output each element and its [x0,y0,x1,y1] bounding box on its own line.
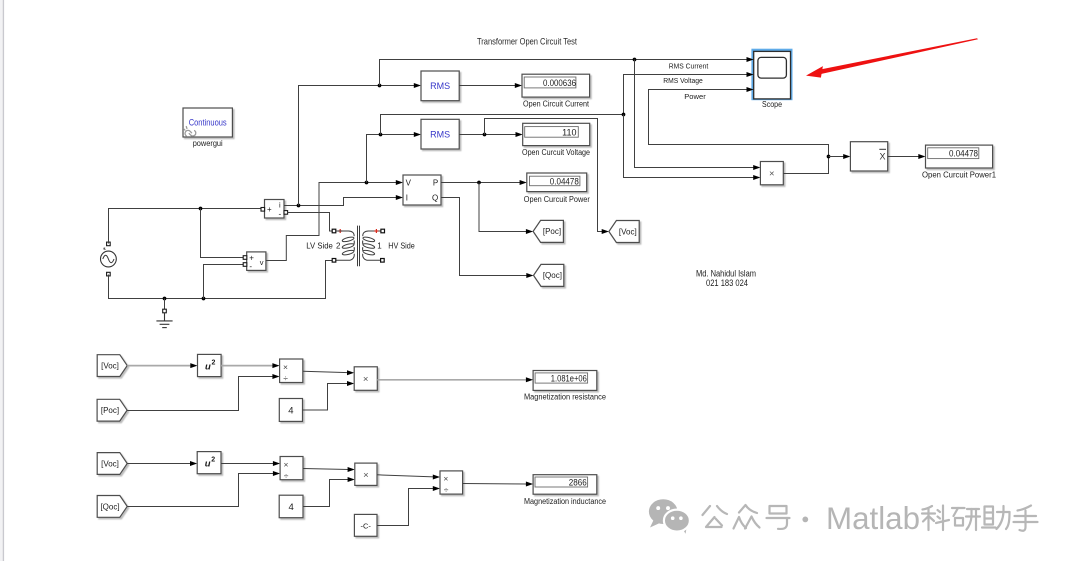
wire P output to display3 [441,182,521,184]
arrow into display6 [526,482,533,487]
svg-text:×: × [769,169,775,180]
wire RMS voltage down to product input 2 [624,115,755,178]
wire Poc to divide row1 input 2 [127,377,273,411]
arrow into u2 row1 [190,363,197,368]
svg-text:Magnetization resistance: Magnetization resistance [524,393,607,402]
arrow into display3 [520,180,527,185]
transformer LV bottom port [332,259,336,263]
wire Qoc to divide row2 input 2 [127,474,274,507]
svg-text:÷: ÷ [284,470,289,480]
watermark char hao [767,506,790,529]
wire RMS1 to display1 [459,85,516,87]
svg-text:2: 2 [211,457,215,464]
svg-text:Open Curcuit Power: Open Curcuit Power [524,195,590,204]
svg-text:÷: ÷ [444,485,449,495]
node V2 junction [379,133,383,137]
watermark char zhu [982,506,1010,529]
wire node G2 to voltmeter minus [204,265,244,299]
node V junction [365,181,369,185]
wire scope voltage column [624,75,748,115]
node I2 junction [378,84,382,88]
from tag Qoc row2 [97,496,127,518]
wire divide2 to display6 [463,483,527,486]
math function u2 row2 [197,452,221,474]
wire node V2 up and right to scope column [381,115,624,135]
display5 Magnetization resistance [533,371,597,391]
node G2 junction [202,297,206,301]
power measurement block VIPQ [403,175,441,205]
canvas left edge line [0,0,3,561]
node S1 junction [633,58,637,62]
transformer HV bottom port [381,259,385,263]
wire Voc tap from RMS2 node to Voc goto [485,119,603,232]
wire RMS current down to product input 1 [635,60,755,168]
svg-text:×: × [443,474,448,484]
transformer LV winding [336,231,355,260]
display1 Open Circuit Current [522,74,590,97]
goto tag Poc [533,220,563,242]
svg-text:LV Side: LV Side [306,241,333,250]
arrow into divide row1 input 2 [272,374,279,379]
arrow into divide row2 input 1 [273,461,280,466]
scope selection highlight [753,50,791,98]
arrow into divide row1 input 1 [272,363,279,368]
watermark char shou [1014,506,1038,531]
RMS2 block [421,119,459,149]
product block x [760,162,783,185]
svg-text:[Qoc]: [Qoc] [100,502,119,511]
current block left port [261,208,265,212]
svg-text:0.04478: 0.04478 [550,176,579,186]
arrow into power block V [396,180,403,185]
svg-text:2866: 2866 [569,478,587,488]
svg-text:HV Side: HV Side [388,241,415,250]
svg-text:X: X [880,152,886,162]
arrow into display5 [526,377,533,382]
svg-text:Open Curcuit Power1: Open Curcuit Power1 [922,170,997,179]
arrow into divide row2 input 2 [273,471,280,476]
RMS1 block [421,71,459,101]
from tag Voc row1 [97,355,127,377]
wire product row2 to divide2 row2 [377,475,434,477]
arrow into u2 row2 [190,461,197,466]
svg-text:[Poc]: [Poc] [101,406,119,415]
svg-text:[Qoc]: [Qoc] [543,271,562,280]
wire node A to voltmeter plus [201,209,244,258]
transformer HV polarity plus [374,229,378,233]
svg-text:Transformer Open Circuit Test: Transformer Open Circuit Test [477,37,577,48]
from tag Poc row1 [97,399,127,421]
arrow into power block I [396,195,403,200]
node RMS2 out junction [483,133,487,137]
watermark char gong [703,506,728,527]
voltage measurement block v [247,252,266,271]
arrow into product row1 input 1 [347,370,354,375]
svg-text:v: v [260,258,264,267]
red annotation arrow [806,38,978,77]
wire node I2 up to scope current line [380,60,748,86]
svg-text:RMS: RMS [430,81,450,91]
arrow into product input 2 [753,175,760,180]
svg-text:×: × [363,374,369,385]
svg-text:Q: Q [432,194,438,203]
svg-text:1.081e+06: 1.081e+06 [551,374,587,384]
arrow into product row2 input 1 [348,467,355,472]
wire v output to power block V input [266,183,397,261]
svg-text:0.000636: 0.000636 [543,78,576,88]
node A junction [199,207,203,211]
arrow into Voc goto [602,229,609,234]
wire node V up to RMS2 input [367,135,415,183]
node G1 junction [163,297,167,301]
AC source top port [107,242,111,246]
arrow into display2 [516,132,523,137]
wire P branch to Poc goto [479,183,527,232]
wire power feedback to scope port 3 [649,90,829,157]
svg-text:Magnetization inductance: Magnetization inductance [524,497,606,506]
wire Voc to u2 row1 [127,365,192,367]
svg-text:[Voc]: [Voc] [101,362,119,371]
ground symbol [156,313,172,328]
svg-text:powergui: powergui [193,139,223,148]
goto tag Qoc [534,264,564,286]
svg-text:[Voc]: [Voc] [619,227,637,236]
wire divide row2 to product row2 [303,469,349,470]
arrow into product row1 input 2 [347,381,354,386]
svg-text:021 183 024: 021 183 024 [706,278,748,288]
svg-text:u: u [205,362,211,373]
svg-text:Matlab: Matlab [826,500,920,536]
wire constant4 row1 to product row1 input 2 [303,384,349,411]
wire Voc row2 to u2 row2 [127,463,192,465]
svg-text:×: × [284,459,289,469]
wire RMS2 to display2 [459,134,516,136]
divide block row1 [280,359,303,383]
constant 4 row2 [279,495,303,518]
node M junction [827,155,831,159]
display6 Magnetization inductance [533,475,597,495]
svg-text:2: 2 [336,241,341,250]
svg-text:P: P [433,178,438,187]
watermark char ke [922,506,949,531]
arrow into divide2 input 1 [433,475,440,480]
svg-text:4: 4 [288,405,293,416]
arrow into product row2 input 2 [348,477,355,482]
arrow into scope port 2 [747,72,754,77]
AC source bottom port [107,272,111,276]
wire AC- to ground bus [109,261,333,299]
svg-text:2: 2 [212,360,216,367]
product block row1 [354,367,377,391]
goto tag Voc [609,221,639,243]
display2 Open Curcuit Voltage [523,123,590,145]
arrow into display1 [515,83,522,88]
svg-text:×: × [283,362,288,372]
mean block [850,142,887,171]
watermark wechat icon [649,499,690,534]
svg-text:Open Curcuit Voltage: Open Curcuit Voltage [522,148,590,157]
arrow into Poc goto [526,229,533,234]
transformer core [358,226,360,267]
node P junction [477,181,481,185]
constant 4 row1 [279,399,302,422]
watermark char zhong [734,505,760,529]
wire -C- to divide2 input 2 [377,489,434,526]
svg-text:I: I [406,194,408,203]
watermark char yan [952,508,980,530]
arrow into mean block [843,154,850,159]
wire mean to display4 [888,156,920,158]
product block row2 [355,463,377,485]
wire product row1 to display5 [377,379,527,381]
watermark middle dot [802,517,808,523]
current measurement block i [265,200,285,219]
svg-text:-: - [279,210,282,219]
svg-text:÷: ÷ [283,373,288,383]
svg-text:Scope: Scope [762,100,782,109]
wire Q output to Qoc goto [441,198,527,276]
ground port [163,309,167,313]
svg-text:u: u [205,459,211,470]
current block bottom-right port [284,211,288,215]
arrow into display4 [918,154,925,159]
transformer HV winding [363,231,382,260]
arrow into RMS2 [414,132,421,137]
wire current block minus to transformer LV top [288,213,333,232]
svg-text:1: 1 [377,241,382,250]
powergui block [183,108,232,137]
display4 Open Curcuit Power1 [926,145,993,168]
wire i output to power block I input [284,198,397,206]
AC voltage source [101,247,117,267]
svg-text:-C-: -C- [360,521,371,530]
svg-text:0.04478: 0.04478 [949,149,978,159]
transformer HV top port [381,229,385,233]
constant -C- row2 [354,514,377,536]
node S2 junction [622,113,626,117]
svg-text:V: V [406,178,412,187]
arrow into scope port 3 [747,87,754,92]
from tag Voc row2 [97,453,127,475]
transformer LV polarity plus [338,229,342,233]
svg-text:[Voc]: [Voc] [101,459,119,468]
wire AC+ to node A [109,209,262,244]
transformer LV top port [332,229,336,233]
svg-text:+: + [267,205,272,214]
svg-text:RMS Current: RMS Current [669,61,709,70]
node I junction [297,204,301,208]
wire node I up to RMS1 input [299,86,415,206]
voltage block plus port [243,256,247,260]
svg-text:[Poc]: [Poc] [543,227,561,236]
math function u2 row1 [198,354,222,376]
svg-text:RMS: RMS [430,129,450,139]
display3 Open Curcuit Power [527,173,587,192]
svg-text:110: 110 [562,127,576,137]
wire into mean block [829,156,845,158]
wire u2 to divide row1 [221,365,273,367]
svg-text:4: 4 [288,502,293,513]
svg-text:Md. Nahidul Islam: Md. Nahidul Islam [696,269,756,279]
voltage block minus port [243,263,247,267]
arrow into divide2 input 2 [433,486,440,491]
wire divide row1 to product row1 [303,371,348,372]
arrow into Qoc goto [526,273,533,278]
svg-text:Continuous: Continuous [189,117,227,127]
wire product output to mean junction [783,157,828,174]
wire u2 row2 to divide row2 [221,463,274,465]
svg-text:RMS Voltage: RMS Voltage [663,76,703,85]
scope block [754,51,791,99]
arrow into RMS1 [414,83,421,88]
svg-text:-: - [249,262,252,271]
arrow into scope port 1 [747,57,754,62]
divide2 block row2 [440,471,463,495]
annotation Md. Nahidul Islam [696,269,756,289]
wire ground branch [164,299,166,310]
svg-text:Open Circuit Current: Open Circuit Current [523,99,590,108]
arrow into product input 1 [753,165,760,170]
svg-text:Power: Power [684,92,706,101]
wire constant4 row2 to product row2 input 2 [303,480,349,507]
svg-text:×: × [363,470,369,481]
divide block row2 [280,457,303,481]
